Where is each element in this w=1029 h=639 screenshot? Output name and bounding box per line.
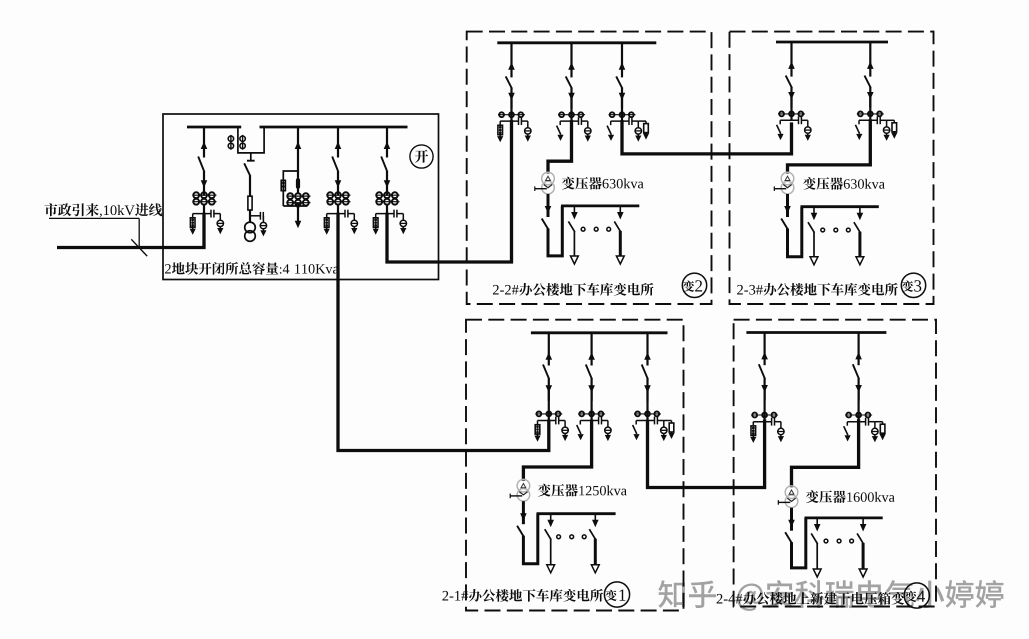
breaker 2-1# transformer bay bbox=[586, 333, 595, 401]
2-4# LV main wire bbox=[785, 508, 806, 568]
PT bay branch capacitor+indicator bbox=[250, 212, 267, 237]
2-2# LV main wire bbox=[542, 194, 563, 256]
breaker 2-2# incoming bay bbox=[506, 43, 515, 109]
label 2-2#办公楼地下车库变电所 bbox=[493, 283, 654, 296]
circled id 变1 bbox=[604, 582, 629, 607]
watermark 知乎 @安科瑞电气小婷婷 bbox=[658, 580, 1003, 611]
2-2# 10kV bus bbox=[497, 41, 656, 44]
2-4# LV more-feeders dots bbox=[824, 539, 853, 543]
2-4# wire to transformer (heavy) bbox=[792, 419, 859, 487]
branch 2-3# incoming bay bbox=[777, 116, 812, 140]
transformer T4 1600kVA bbox=[778, 486, 798, 508]
cable slash mark bbox=[131, 239, 147, 256]
2-3# wire to transformer (heavy) bbox=[788, 119, 871, 173]
circled id 变3 bbox=[901, 273, 925, 297]
CT trio 2-3# transformer bay bbox=[857, 95, 884, 120]
sensor CT a bbox=[228, 135, 233, 150]
breaker 2-4# incoming bay bbox=[759, 333, 768, 401]
CT trio 2-3# incoming bay bbox=[778, 95, 805, 120]
leader drop wire bbox=[138, 218, 140, 247]
10kV bus section 2 bbox=[260, 126, 408, 129]
label 市政引来,10kV进线 bbox=[44, 203, 162, 217]
substation 2-1# dashed enclosure bbox=[466, 320, 684, 611]
circled id 变4 bbox=[904, 583, 929, 608]
2-2# LV feeder 2 bbox=[614, 206, 624, 264]
PT bay switch bbox=[244, 163, 250, 196]
substation 2-4# dashed enclosure bbox=[734, 320, 936, 607]
tie cable 2-2# to 2-3# (heavy) bbox=[622, 120, 792, 154]
2-2# LV bus bbox=[561, 204, 639, 207]
CT trio 2-2# incoming bay bbox=[498, 96, 525, 121]
2-1# wire to transformer (heavy) bbox=[523, 420, 591, 481]
branch 2-2# transformer bay bbox=[557, 117, 592, 142]
transformer T2 630kVA bbox=[774, 172, 794, 194]
branch 2-1# incoming bay bbox=[534, 417, 568, 442]
bay1 branch arrester+capacitor+indicator bbox=[190, 210, 224, 235]
2-4# 10kV bus bbox=[746, 331, 886, 334]
branch 2-1# transformer bay bbox=[577, 417, 612, 442]
circled station id 开 bbox=[410, 145, 433, 168]
label 变压器1250kva bbox=[538, 484, 627, 497]
PT bay fuse FU bbox=[248, 196, 252, 210]
CT trio 2-2# tie feeder bay bbox=[609, 96, 636, 121]
2-1# LV feeder 2 bbox=[589, 514, 599, 573]
bay5 branch arrester+capacitor+indicator bbox=[373, 210, 407, 235]
2-1# LV more-feeders dots bbox=[557, 535, 586, 539]
CT group bay4 bbox=[327, 192, 351, 204]
wire bay1 mid bbox=[203, 205, 205, 214]
breaker 2-1# incoming bay bbox=[543, 333, 552, 401]
2-3# LV more-feeders dots bbox=[821, 228, 850, 232]
bay3 fuse center bbox=[296, 178, 300, 188]
2-3# LV main wire bbox=[781, 194, 802, 257]
10kV bus section 1 bbox=[187, 126, 241, 129]
CT group bay5 bbox=[376, 192, 400, 204]
CT trio 2-4# incoming bay bbox=[751, 386, 778, 422]
circled id 变2 bbox=[682, 273, 706, 297]
2-3# 10kV bus bbox=[776, 41, 888, 44]
cable to substation 2-2# (heavy) bbox=[387, 120, 512, 262]
label 2-3#办公楼地下车库变电所 bbox=[737, 283, 898, 296]
branch 2-3# transformer bay bbox=[855, 116, 897, 140]
label 2地块开闭所总容量:4 110Kva bbox=[165, 262, 339, 275]
breaker 2-3# incoming bay bbox=[786, 42, 795, 108]
breaker 2-2# tie feeder bay bbox=[616, 43, 625, 109]
CT group bay1 bbox=[193, 192, 217, 204]
2-2# LV more-feeders dots bbox=[581, 227, 610, 231]
label 变压器1600kva bbox=[806, 490, 895, 503]
transformer T1 630kVA bbox=[535, 172, 555, 194]
label 变压器630kva (T1) bbox=[562, 177, 644, 190]
breaker 2-4# transformer bay bbox=[853, 333, 862, 401]
PT bay terminal stub bbox=[247, 153, 255, 161]
branch 2-4# transformer bay bbox=[844, 418, 886, 443]
wire bay5 mid bbox=[386, 205, 388, 214]
bus tie link wire bbox=[238, 127, 264, 153]
breaker 2-1# tie feeder bay bbox=[642, 333, 651, 401]
leader underline bbox=[49, 217, 139, 219]
bay4 branch arrester+capacitor+indicator bbox=[324, 210, 358, 235]
CT trio 2-1# incoming bay bbox=[535, 386, 562, 421]
voltage transformer PT bbox=[245, 222, 256, 241]
bay3 riser with up arrow bbox=[295, 127, 302, 172]
2-4# LV feeder 2 bbox=[857, 518, 867, 577]
tie cable 2-1# to 2-4# (heavy) bbox=[648, 420, 765, 488]
label 变压器630kva (T2) bbox=[803, 177, 885, 190]
breaker 2-2# transformer bay bbox=[566, 43, 575, 109]
sensor CT b bbox=[240, 135, 245, 150]
transformer T3 1250kVA bbox=[510, 479, 530, 501]
2-1# LV bus bbox=[537, 512, 616, 515]
bay3 PT circles bbox=[287, 193, 311, 205]
2-3# LV feeder 1 bbox=[808, 207, 818, 265]
CT trio 2-1# tie feeder bay bbox=[634, 386, 661, 421]
breaker 2-3# transformer bay bbox=[865, 42, 874, 108]
CT trio 2-4# transformer bay bbox=[845, 386, 872, 422]
label 2-1#办公楼地下车库变电所 bbox=[442, 589, 603, 602]
2-4# LV feeder 1 bbox=[811, 518, 821, 577]
2-2# LV feeder 1 bbox=[568, 206, 578, 264]
cable to substation 2-1# (heavy) bbox=[338, 213, 549, 451]
substation 2-3# dashed enclosure bbox=[730, 32, 934, 304]
branch 2-1# tie feeder bay bbox=[633, 417, 675, 442]
2-3# LV feeder 2 bbox=[854, 207, 864, 265]
2-1# LV feeder 1 bbox=[545, 514, 555, 573]
2-2# wire to transformer (heavy) bbox=[548, 120, 572, 173]
breaker QF2 bay4 bbox=[332, 127, 341, 196]
2-4# LV bus bbox=[805, 517, 883, 520]
bay3 parallel loop wires bbox=[283, 171, 307, 206]
bay3 fuse left bbox=[281, 180, 285, 190]
label 2-4#办公楼地上新建干电压箱变 bbox=[717, 592, 905, 605]
breaker QF3 bay5 bbox=[381, 127, 390, 196]
PT bay wire bbox=[249, 210, 251, 222]
bay3 outlet arrows bbox=[295, 203, 302, 228]
CT trio 2-2# transformer bay bbox=[558, 96, 585, 121]
2-3# LV bus bbox=[801, 205, 879, 208]
breaker QF1 incoming bay bbox=[198, 127, 207, 196]
wire bay4 mid bbox=[337, 205, 339, 214]
CT trio 2-1# transformer bay bbox=[578, 386, 605, 421]
branch 2-2# tie feeder bay bbox=[607, 117, 649, 142]
branch 2-4# incoming bay bbox=[750, 418, 784, 443]
2-1# LV main wire bbox=[517, 501, 538, 564]
branch 2-2# incoming bay bbox=[497, 117, 531, 142]
substation 2-2# dashed enclosure bbox=[467, 32, 712, 304]
2-1# 10kV bus bbox=[531, 331, 668, 334]
incoming feeder wire (heavy) bbox=[57, 213, 204, 248]
switching station enclosure box bbox=[163, 114, 439, 280]
